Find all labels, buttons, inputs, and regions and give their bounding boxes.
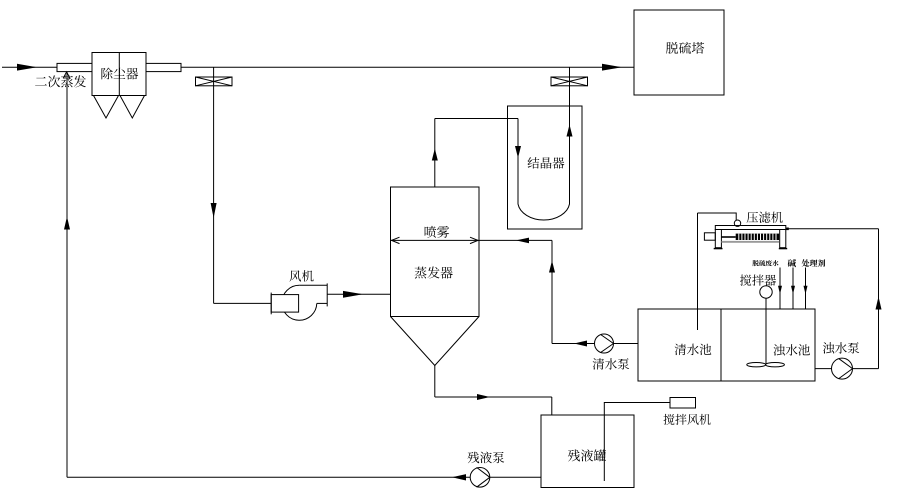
valve V1 body [196, 77, 233, 86]
wire press riser [878, 229, 880, 369]
filter press left column [715, 230, 721, 248]
pump 浊水泵 casing [832, 358, 853, 379]
arrow dosing 3 [804, 286, 808, 295]
arrow flue gas inlet [17, 64, 37, 71]
label 残液罐 [568, 449, 606, 461]
dust collector 除尘器 shell [92, 53, 146, 96]
filter press top beam [715, 226, 786, 230]
label 浊水泵 [823, 342, 859, 353]
label 风机 [289, 270, 313, 281]
wire press feed line [786, 228, 879, 230]
spray arrowhead left [392, 237, 400, 243]
wire turbid pump suction [815, 368, 879, 370]
filter press ram rod [721, 236, 735, 238]
crystallizer U-tube [518, 106, 570, 220]
outlet duct [146, 63, 181, 71]
wire main gas line [181, 66, 634, 68]
wire spray feed horizontal [479, 239, 552, 241]
arrow press riser up [876, 297, 882, 310]
arrow secondary-vapour return chevron [63, 72, 70, 79]
label 除尘器 [101, 68, 138, 80]
filter press plate stripes [738, 234, 740, 240]
fan volute cutoff [317, 302, 327, 304]
wire crystallizer to gas line [569, 67, 571, 106]
valve V2 body [551, 77, 588, 86]
label 压滤机 [747, 212, 783, 223]
arrow U-tube down [515, 146, 521, 158]
arrow residual flow [452, 474, 466, 480]
label 处理剂 [802, 259, 826, 267]
label 清水池 [675, 344, 712, 355]
fan inlet flange [270, 293, 272, 315]
spray line 喷雾 [391, 239, 480, 241]
valve V2 cross [551, 77, 588, 86]
arrow U-tube up [567, 125, 573, 137]
label 喷雾 [425, 226, 450, 238]
filter press plate pack [736, 234, 780, 240]
pump 残液泵 casing [470, 468, 490, 488]
wire spray feed riser [551, 240, 553, 343]
label 二次蒸发 [35, 75, 86, 87]
wire riser to crystallizer [435, 118, 518, 120]
wire evap drain drop [434, 366, 436, 398]
wire evap drain horizontal [435, 396, 552, 398]
fan outlet flange [326, 283, 328, 306]
arrow clean water flow [574, 341, 587, 347]
arrow down to fan [211, 203, 217, 218]
filter press left foot [714, 248, 723, 249]
label 浊水池 [773, 344, 810, 355]
fan inlet box [271, 295, 298, 313]
arrow dosing 2 [791, 286, 795, 295]
valve V1 cross [196, 77, 233, 86]
tank divider [720, 309, 722, 381]
filter press right foot [779, 248, 787, 249]
wire return riser [66, 72, 68, 478]
wire filtrate drop [697, 213, 699, 330]
agitator shaft [765, 298, 767, 364]
label 碱 [788, 259, 796, 267]
wire dosing 1 [779, 268, 781, 310]
arrow return riser up [64, 217, 70, 230]
label 残液泵 [468, 452, 505, 464]
filter press feed port [734, 220, 740, 226]
crystallizer 结晶器 shell [508, 106, 583, 229]
filter press cylinder [704, 233, 715, 240]
wire dosing 3 [805, 268, 807, 310]
inlet duct [57, 63, 92, 71]
arrow vapour up [432, 149, 438, 161]
wire residual discharge [67, 476, 541, 478]
spray arrowhead right [470, 237, 478, 243]
agitator motor [760, 286, 772, 298]
wire fan outlet [327, 293, 390, 295]
arrow feed riser up [549, 261, 555, 273]
wire clean water suction [552, 343, 638, 345]
wire flue gas inlet [2, 66, 57, 68]
label 脱硫废水 [752, 260, 778, 266]
agitator blade left [747, 363, 766, 367]
label 结晶器 [528, 157, 565, 169]
evaporator cone [391, 317, 480, 366]
label 脱硫塔 [666, 42, 704, 54]
wire dosing 2 [792, 268, 794, 310]
arrow into tower [602, 64, 622, 71]
label 清水泵 [593, 358, 630, 369]
pump 清水泵 vanes [601, 335, 614, 353]
fan 风机 volute [282, 285, 317, 320]
dust collector hopper right [120, 96, 145, 119]
wire evap vapour riser [434, 119, 436, 188]
pump 浊水泵 vanes [839, 359, 853, 379]
arrow drain flow [477, 394, 490, 400]
arrow spray feed [516, 238, 529, 244]
wire sparge dip tube [604, 403, 670, 482]
filter press rail [721, 241, 779, 243]
evaporator 蒸发器 shell [391, 187, 480, 317]
desulfurization tower 脱硫塔 [634, 10, 724, 95]
pump 残液泵 vanes [477, 467, 490, 487]
filter press right column [780, 230, 786, 248]
tank 清水池/浊水池 shell [638, 309, 815, 381]
label 搅拌风机 [664, 414, 711, 425]
agitation fan 搅拌风机 body [670, 398, 696, 409]
wire drain into tank [551, 397, 553, 415]
dust collector hopper left [94, 96, 119, 119]
arrow fan to evaporator [343, 291, 363, 298]
agitator blade right [766, 363, 785, 367]
pump 清水泵 casing [595, 334, 614, 353]
residual tank 残液罐 shell [541, 415, 634, 488]
label 蒸发器 [415, 267, 453, 279]
junction dot into press [786, 228, 789, 231]
wire feed port up [698, 213, 737, 220]
wire to fan inlet [214, 302, 272, 304]
wire valve1 drop [213, 67, 215, 303]
label 搅拌器 [740, 274, 776, 285]
arrow dosing 1 [778, 286, 782, 295]
fan volute top [299, 284, 327, 286]
dust collector divider [118, 53, 120, 96]
